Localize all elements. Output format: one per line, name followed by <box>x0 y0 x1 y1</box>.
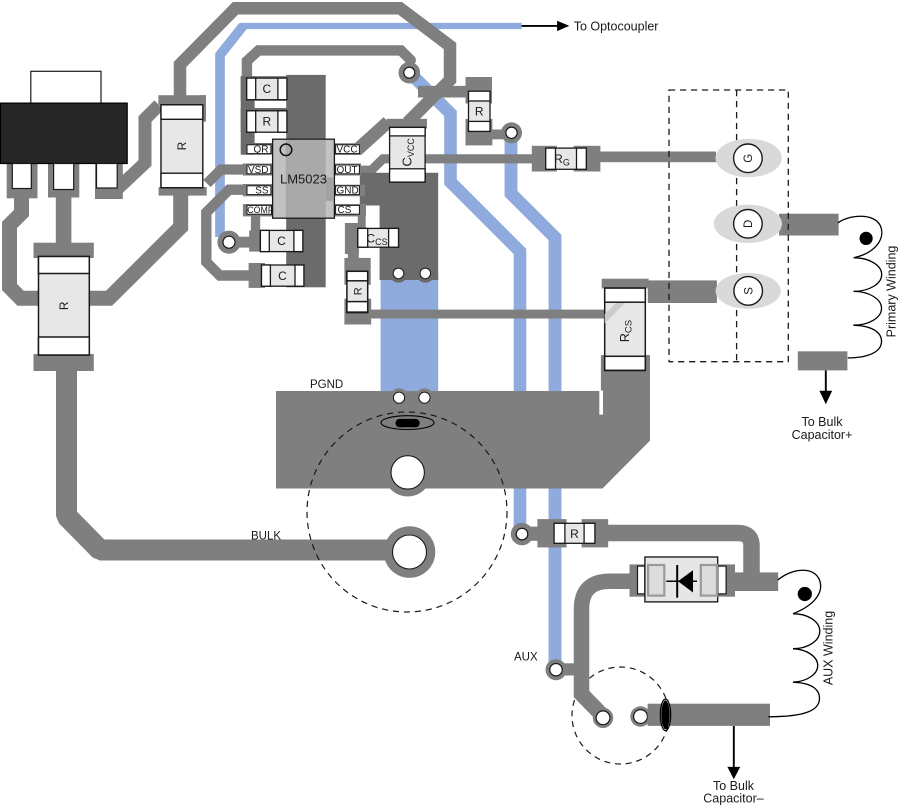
dashed circle AUX winding pads <box>572 667 669 764</box>
wire AUX via stub <box>556 663 578 675</box>
resistor R4 (CS filter) <box>347 271 368 312</box>
svg-text:R: R <box>175 141 189 150</box>
capacitor C top (QR) <box>247 78 287 100</box>
svg-text:VSD: VSD <box>248 165 269 176</box>
pad R4 bottom <box>344 299 371 325</box>
svg-text:Capacitor+: Capacitor+ <box>792 428 853 442</box>
via AUX via5 <box>546 659 567 680</box>
diode D1 (AUX rectifier) <box>638 557 727 602</box>
node primary dot <box>860 232 873 245</box>
svg-text:R: R <box>57 301 71 310</box>
wire winding wrap mark <box>660 699 670 731</box>
wire via3 stub <box>490 130 506 140</box>
resistor R (QR) <box>247 111 287 132</box>
svg-text:SS: SS <box>255 186 269 197</box>
transistor Q2 TO-220 tab <box>31 71 101 103</box>
wire leg2 to big R top <box>56 190 72 248</box>
wire diode right to winding stub <box>735 572 778 591</box>
wire CCS to R4 <box>348 248 359 259</box>
svg-text:R: R <box>570 527 579 541</box>
svg-text:To Bulk: To Bulk <box>802 415 844 429</box>
svg-text:OUT: OUT <box>337 165 358 176</box>
wire arrow to bulk capacitor minus <box>733 726 735 767</box>
svg-text:VCC: VCC <box>337 145 358 156</box>
pad G <box>716 139 782 177</box>
pin VSD <box>247 165 271 174</box>
node aux dot <box>798 587 812 601</box>
svg-text:GND: GND <box>337 186 359 197</box>
pad R4 top <box>344 258 370 285</box>
pad small R3 top <box>466 77 493 104</box>
pad CCS left <box>345 223 359 254</box>
wire D pad bar to primary winding <box>779 214 839 236</box>
pad bulk slot ellipse <box>381 416 434 430</box>
pad RG right <box>574 146 601 172</box>
wire AUX bottom bar <box>648 704 770 726</box>
capacitor CVCC <box>390 127 426 182</box>
wire VSD trace <box>207 170 246 184</box>
svg-text:AUX Winding: AUX Winding <box>822 611 836 685</box>
wire primary winding bottom bar <box>798 351 848 370</box>
transistor Q2 TO-220 body <box>1 103 128 163</box>
wire via1 stub <box>229 237 251 248</box>
ground dark center bar under IC <box>286 75 326 287</box>
wire arrow to optocoupler <box>522 25 558 27</box>
wire R5 to diode (rounded corner) <box>606 533 752 582</box>
svg-text:R: R <box>475 105 484 119</box>
pad diode right <box>717 564 735 596</box>
svg-text:R: R <box>262 115 271 129</box>
resistor RG <box>546 148 587 169</box>
ground PGND plane <box>276 355 650 488</box>
via via2 top <box>399 62 421 84</box>
wire blue AUX trace <box>511 133 555 670</box>
via via4 near AUX R <box>511 523 533 545</box>
pad RG left <box>532 146 557 172</box>
wire CS pin down to CCS <box>358 210 366 230</box>
dashed circle bulk capacitor outline <box>307 412 507 612</box>
pad R5 right <box>582 519 609 547</box>
resistor R5 (AUX) <box>554 523 595 543</box>
pad plane hole <box>391 456 424 489</box>
pin COMP <box>247 205 272 214</box>
pad big R bottom <box>34 354 94 371</box>
capacitor C2 (SS) <box>262 265 304 286</box>
via block bottom vias <box>389 264 408 283</box>
pad BULK through-hole <box>384 526 436 578</box>
svg-text:QR: QR <box>254 145 269 156</box>
inductor primary winding <box>838 216 882 358</box>
wire RG to G pad <box>598 152 716 163</box>
svg-text:R: R <box>352 287 364 295</box>
wire H1 junction to small R top <box>418 86 480 98</box>
wire leg1 to SS net <box>10 190 181 298</box>
pad winding pad1 <box>593 708 613 728</box>
pad upper R bottom <box>159 187 207 196</box>
svg-text:AUX: AUX <box>514 652 538 664</box>
pad small R3 bottom <box>466 119 493 145</box>
pad TO-220 leg pads <box>7 162 38 198</box>
inductor AUX winding <box>768 570 820 717</box>
pad plane hole bump <box>384 448 432 496</box>
pad D <box>714 205 782 243</box>
pad bulk slot pill <box>396 419 420 427</box>
capacitor CCS <box>358 228 399 247</box>
pad RCS bottom <box>601 355 650 391</box>
wire COMP bar down to C1 <box>251 214 260 250</box>
wire big R bottom to BULK <box>67 371 410 550</box>
wire inner path dark-block to via2 <box>247 50 411 76</box>
svg-text:C: C <box>278 269 287 283</box>
pad upper R top <box>158 95 206 105</box>
wire VCC pin diagonal <box>357 122 388 150</box>
via plane top vias bumps <box>390 388 409 407</box>
node FB (blue trace to optocoupler, bottom layer) <box>220 26 555 670</box>
pin SS <box>247 186 271 195</box>
transistor Q1 pads G D S (dashed MOSFET outline) <box>669 90 788 362</box>
pad CVCC top bar <box>387 119 427 129</box>
wire CS sense trace to RCS <box>366 310 607 319</box>
svg-text:G: G <box>743 154 755 163</box>
via via1 COMP-FB <box>217 231 240 254</box>
pin VCC <box>336 145 360 154</box>
svg-text:To Optocoupler: To Optocoupler <box>574 19 659 33</box>
wire via4 to R5 <box>522 527 542 541</box>
ground dark block around C/R top (QR net) <box>241 76 255 155</box>
wire SS hook to C2 <box>206 190 252 276</box>
IC U1 LM5023 pin pads <box>243 143 273 155</box>
svg-text:PGND: PGND <box>310 379 343 391</box>
pad R5 left <box>537 519 566 547</box>
via via3 (511,133) <box>501 122 522 143</box>
svg-text:S: S <box>743 287 755 295</box>
resistor RCS <box>605 288 646 370</box>
pad big R top <box>34 243 94 258</box>
pad winding pad2 <box>630 706 650 726</box>
pin OUT <box>336 165 360 174</box>
transistor Q2 legs <box>12 164 31 189</box>
pad diode left <box>630 564 649 596</box>
svg-text:Capacitor–: Capacitor– <box>703 791 763 805</box>
pad S <box>716 273 781 309</box>
svg-text:CS: CS <box>338 205 352 216</box>
wire blue VCC via trace <box>410 73 521 535</box>
wire diode left to winding pads <box>582 581 633 714</box>
svg-text:BULK: BULK <box>251 530 281 542</box>
pin QR <box>247 145 271 154</box>
pin GND <box>336 186 360 195</box>
resistor R2 big left <box>39 257 90 356</box>
svg-text:C: C <box>262 82 271 96</box>
capacitor C1 (COMP) <box>260 230 302 251</box>
svg-text:LM5023: LM5023 <box>280 172 327 187</box>
svg-text:Primary Winding: Primary Winding <box>885 246 899 338</box>
IC U1 LM5023 body <box>273 139 335 218</box>
ground dark block GND/CS island <box>360 173 438 280</box>
wire top outer loop (VIN loop) <box>180 8 450 122</box>
wire OUT pin to RG (passes behind CVCC) <box>358 159 533 170</box>
resistor R3 small top-right <box>469 91 491 131</box>
pad C2 left <box>249 263 265 288</box>
wire arrow to bulk capacitor plus <box>825 370 827 392</box>
svg-text:C: C <box>277 234 286 248</box>
resistor R1 upper <box>161 105 203 188</box>
pad RCS top + S trace <box>602 279 649 289</box>
svg-text:D: D <box>743 220 755 228</box>
wire leg3 to upper R top pad <box>112 105 159 194</box>
svg-text:COMP: COMP <box>247 205 274 215</box>
pin CS <box>336 205 360 214</box>
node PGND wide blue column <box>381 276 439 391</box>
pad C1 left <box>249 230 262 251</box>
